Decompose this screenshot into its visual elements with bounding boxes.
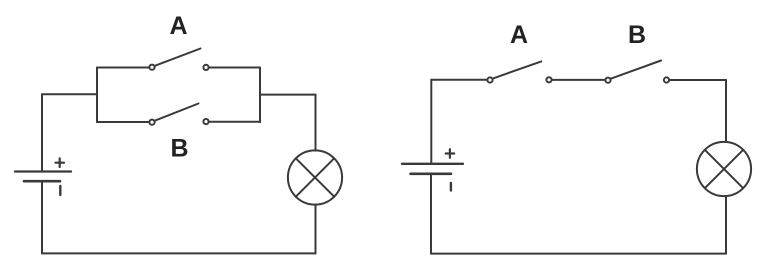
lamp (right circuit)	[697, 142, 751, 196]
wire right junction node to corner	[260, 94, 316, 96]
svg-text:A: A	[510, 21, 528, 49]
wire switch B right terminal to corner	[670, 79, 726, 81]
switch A left terminal (right circuit)	[487, 77, 492, 82]
wire left junction bar of parallel branches	[96, 68, 98, 123]
wire bottom branch to switch B left terminal	[97, 121, 149, 123]
switch A blade (open, right circuit)	[493, 61, 541, 78]
battery (right circuit) negative plate	[411, 173, 452, 176]
wire corner down to lamp top terminal	[315, 95, 317, 151]
wire between switch A and switch B	[552, 79, 604, 81]
wire lamp bottom terminal down to corner	[725, 196, 727, 253]
label - (left battery negative terminal)	[59, 186, 61, 195]
wire from corner to parallel junction node	[42, 93, 97, 95]
svg-text:A: A	[169, 12, 187, 40]
lamp (left circuit)	[288, 150, 342, 204]
battery (left circuit) negative plate	[24, 180, 60, 183]
wire corner to switch A left terminal	[431, 79, 486, 81]
wire lamp bottom terminal down to corner	[315, 205, 317, 254]
switch B blade (open)	[155, 104, 198, 121]
wire switch A right terminal to right junction bar	[209, 67, 260, 69]
wire up to left battery negative plate	[41, 181, 43, 253]
switch B right terminal	[203, 119, 208, 124]
wire from right battery positive plate up to corner	[430, 80, 432, 164]
switch A right terminal	[203, 65, 208, 70]
wire corner down to lamp top terminal	[725, 80, 727, 142]
switch B left terminal	[149, 120, 154, 125]
switch A left terminal	[149, 65, 154, 70]
wire from left battery positive plate up to corner	[41, 94, 43, 171]
wire bottom return to battery corner	[42, 252, 316, 254]
battery (right circuit) positive plate	[402, 163, 463, 165]
wire top branch to switch A left terminal	[97, 67, 149, 69]
wire switch B right terminal to right junction bar	[209, 121, 260, 123]
wire up to right battery negative plate	[430, 174, 432, 254]
label + (right battery positive terminal)	[446, 149, 455, 158]
switch A blade (open)	[155, 49, 200, 66]
switch A right terminal (right circuit)	[546, 77, 551, 82]
label + (left battery positive terminal)	[56, 158, 65, 167]
switch B left terminal (right circuit)	[605, 78, 610, 83]
wire bottom return to battery corner	[431, 253, 726, 255]
wire right junction bar of parallel branches	[259, 68, 261, 123]
label - (right battery negative terminal)	[450, 183, 452, 191]
switch B blade (open, right circuit)	[611, 61, 661, 79]
battery (left circuit) positive plate	[15, 170, 71, 172]
svg-text:B: B	[170, 135, 188, 163]
switch B right terminal (right circuit)	[664, 77, 669, 82]
svg-text:B: B	[628, 21, 646, 49]
